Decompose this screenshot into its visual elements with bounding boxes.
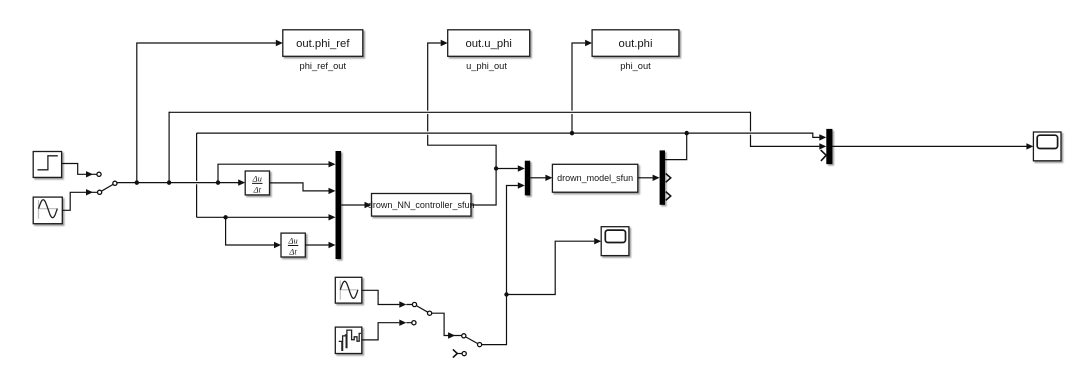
- node junction J8: [504, 292, 508, 296]
- svg-text:Δt: Δt: [253, 184, 262, 194]
- step source block Step: [33, 152, 61, 178]
- svg-text:drown_model_sfun: drown_model_sfun: [557, 173, 633, 183]
- node junction J3: [216, 180, 220, 184]
- wire branch up to mux M1 input 1: [218, 161, 336, 183]
- sine wave source block Sine Wave: [33, 197, 62, 224]
- wire switch SW2 to switch SW3 input 1: [432, 313, 462, 339]
- wire derivative D1 to mux M1 input 2: [270, 183, 336, 194]
- svg-text:u_phi_out: u_phi_out: [466, 61, 507, 71]
- node junction J4 top: [570, 131, 574, 135]
- wire phi_ref line top layer: [169, 111, 750, 114]
- node junction J7: [494, 166, 498, 170]
- wire derivative D2 to mux M1 input 4: [305, 242, 335, 248]
- node junction J2: [167, 180, 171, 184]
- scope block S2: [601, 227, 629, 256]
- demux DM1: [660, 150, 665, 204]
- node junction J6: [223, 215, 227, 219]
- outport block out.u_phi: [448, 30, 530, 57]
- node junction J5: [685, 131, 689, 135]
- node junction J5 top: [685, 131, 689, 135]
- wire mux M1 to controller: [341, 202, 371, 208]
- wire branch down to derivative D2: [226, 217, 281, 248]
- wire Sine Wave to switch input 2: [62, 189, 97, 210]
- manual switch SW3: [453, 334, 482, 358]
- wire Sine Wave 2 to switch SW2 input 1: [362, 290, 413, 307]
- wire switch SW1 output main line: [117, 179, 245, 185]
- node junction J1 top: [135, 180, 139, 184]
- wire phi line top layer: [197, 131, 813, 134]
- wire mux M3 to scope S1: [832, 143, 1033, 149]
- svg-text:Δu: Δu: [252, 174, 262, 184]
- wire mux M2 to drown_model_sfun: [530, 175, 552, 181]
- svg-text:Δt: Δt: [288, 246, 297, 256]
- svg-text:phi_ref_out: phi_ref_out: [300, 61, 347, 71]
- svg-text:out.phi_ref: out.phi_ref: [296, 38, 350, 50]
- sine wave source block Sine Wave 2: [335, 277, 362, 303]
- mux M3: [826, 129, 832, 164]
- wire phi feedback vertical: [196, 133, 198, 217]
- wire demux output 1 up to phi line: [665, 133, 687, 160]
- s-function block drown_model_sfun: [552, 164, 637, 192]
- wire branch to scope S2: [507, 238, 602, 295]
- outport block out.phi_ref: [283, 30, 363, 57]
- wire main line top layer: [117, 181, 238, 184]
- wire branch up to out.phi: [572, 40, 592, 133]
- node junction J3 top: [216, 180, 220, 184]
- demux unconnected output 3: [666, 192, 671, 201]
- demux unconnected output 2: [666, 174, 671, 183]
- wire controller output up and to out.u_phi: [428, 40, 496, 205]
- manual switch SW1: [97, 172, 117, 194]
- svg-text:drown_NN_controller_sfun: drown_NN_controller_sfun: [368, 200, 475, 210]
- mux M3 unconnected input 3: [821, 150, 827, 161]
- svg-text:phi_out: phi_out: [620, 61, 651, 71]
- wire phi long line to mux M3 input 1: [197, 133, 827, 141]
- wire branch up to out.phi_ref: [137, 40, 283, 183]
- node junction J1: [135, 180, 139, 184]
- wire excitation vertical to mux M2 input 2: [482, 182, 525, 344]
- wire phi line to mux M1 input 3: [197, 214, 336, 220]
- outport block out.phi: [592, 30, 679, 57]
- mux M1: [336, 151, 342, 259]
- wire Step to switch input 1: [62, 164, 97, 178]
- wire phi_ref long line to mux M3 input 2: [169, 112, 826, 182]
- wire controller signal to mux M2 input 1: [496, 165, 525, 171]
- mux M2: [525, 161, 530, 196]
- derivative block D2: [281, 233, 305, 257]
- noise source block Uniform Random Number: [335, 327, 362, 353]
- svg-text:out.phi: out.phi: [619, 38, 653, 50]
- scope block S1: [1033, 132, 1061, 161]
- manual switch SW2: [412, 302, 432, 324]
- wire noise to switch SW2 input 2: [362, 320, 412, 340]
- node junction J2 top: [167, 180, 171, 184]
- svg-text:out.u_phi: out.u_phi: [465, 38, 511, 50]
- svg-text:Δu: Δu: [287, 236, 297, 246]
- s-function block drown_NN_controller_sfun: [368, 194, 475, 217]
- node junction J4: [570, 131, 574, 135]
- derivative block D1: [245, 171, 269, 195]
- wire drown_model_sfun to demux: [638, 175, 660, 181]
